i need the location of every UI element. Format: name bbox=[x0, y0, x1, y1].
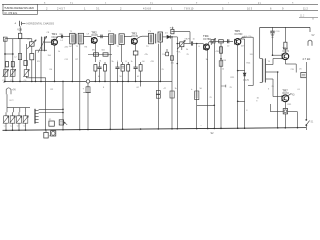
svg-text:S1: S1 bbox=[311, 122, 315, 124]
svg-text:L2: L2 bbox=[10, 126, 13, 128]
svg-text:+: + bbox=[191, 88, 193, 91]
svg-text:+9V: +9V bbox=[12, 90, 17, 92]
svg-text:2 4 5 7: 2 4 5 7 bbox=[57, 6, 65, 10]
svg-text:OC72: OC72 bbox=[282, 50, 289, 53]
svg-text:2: 2 bbox=[120, 6, 122, 10]
svg-text:C6: C6 bbox=[23, 126, 27, 128]
svg-text:3: 3 bbox=[268, 89, 270, 91]
svg-text:47k: 47k bbox=[145, 54, 148, 56]
svg-text:a: a bbox=[201, 125, 203, 127]
svg-text:470: 470 bbox=[216, 51, 220, 53]
svg-text:R4: R4 bbox=[50, 69, 53, 71]
svg-text:02: 02 bbox=[137, 76, 140, 78]
svg-text:R24: R24 bbox=[247, 63, 252, 65]
svg-text:LS: LS bbox=[299, 69, 302, 71]
svg-text:OA70: OA70 bbox=[243, 79, 250, 82]
svg-text:OC45: OC45 bbox=[91, 34, 98, 37]
svg-text:10 3: 10 3 bbox=[247, 6, 253, 10]
svg-text:.04: .04 bbox=[142, 61, 146, 63]
svg-text:5: 5 bbox=[222, 6, 224, 10]
svg-text:25: 25 bbox=[230, 87, 233, 89]
svg-text:5k: 5k bbox=[186, 49, 189, 51]
svg-text:BY2: BY2 bbox=[10, 100, 15, 102]
svg-text:OC45: OC45 bbox=[131, 35, 138, 38]
svg-text:9V: 9V bbox=[312, 34, 315, 37]
svg-text:T4: T4 bbox=[268, 61, 271, 63]
svg-text:8: 8 bbox=[256, 100, 258, 102]
svg-text:4.7 kΩ: 4.7 kΩ bbox=[302, 57, 310, 61]
svg-text:11 2: 11 2 bbox=[303, 6, 308, 10]
svg-text:HORIZONTAL CHASSIS: HORIZONTAL CHASSIS bbox=[27, 23, 55, 26]
svg-text:8: 8 bbox=[199, 46, 201, 48]
svg-text:4 5 6 8: 4 5 6 8 bbox=[143, 6, 151, 10]
svg-text:25: 25 bbox=[187, 54, 190, 56]
svg-text:T1: T1 bbox=[76, 46, 79, 48]
svg-text:T3: T3 bbox=[148, 31, 151, 33]
svg-text:10: 10 bbox=[227, 45, 230, 47]
svg-text:R7: R7 bbox=[76, 59, 79, 61]
svg-text:R2: R2 bbox=[51, 89, 55, 91]
svg-text:T3: T3 bbox=[146, 46, 149, 48]
svg-text:V2B: V2B bbox=[17, 28, 22, 32]
svg-text:R21: R21 bbox=[231, 77, 236, 79]
svg-text:L1: L1 bbox=[4, 126, 7, 128]
svg-text:L2: L2 bbox=[14, 57, 17, 59]
svg-text:L4: L4 bbox=[61, 40, 64, 42]
svg-text:6: 6 bbox=[270, 6, 272, 10]
svg-text:OC44: OC44 bbox=[52, 36, 59, 39]
svg-text:OA79: OA79 bbox=[185, 37, 191, 40]
svg-text:10k 25k: 10k 25k bbox=[244, 36, 253, 38]
svg-text:R6: R6 bbox=[85, 47, 89, 49]
svg-text:C5: C5 bbox=[17, 126, 21, 128]
svg-text:+: + bbox=[14, 21, 16, 25]
svg-text:R31: R31 bbox=[288, 104, 293, 106]
svg-text:25: 25 bbox=[272, 86, 275, 88]
svg-text:270: 270 bbox=[291, 69, 295, 71]
svg-text:1k: 1k bbox=[131, 61, 133, 63]
svg-text:OC78D: OC78D bbox=[203, 38, 211, 41]
svg-text:S2: S2 bbox=[211, 132, 215, 135]
svg-text:25: 25 bbox=[162, 69, 165, 71]
svg-text:R3: R3 bbox=[37, 61, 40, 63]
svg-text:T2: T2 bbox=[108, 31, 111, 33]
svg-text:1k: 1k bbox=[206, 59, 208, 61]
svg-text:T1: T1 bbox=[70, 31, 73, 33]
svg-text:01: 01 bbox=[298, 89, 301, 91]
svg-text:100: 100 bbox=[171, 63, 174, 65]
svg-text:8: 8 bbox=[103, 87, 105, 89]
svg-text:4Ω: 4Ω bbox=[292, 95, 295, 97]
svg-text:15k: 15k bbox=[162, 54, 165, 56]
svg-text:2: 2 bbox=[46, 6, 48, 10]
svg-text:04: 04 bbox=[98, 76, 101, 78]
svg-text:10: 10 bbox=[193, 39, 196, 41]
svg-text:8: 8 bbox=[246, 110, 248, 112]
svg-text:47: 47 bbox=[164, 88, 167, 90]
svg-text:5k: 5k bbox=[112, 61, 115, 63]
svg-text:D1: D1 bbox=[165, 33, 169, 35]
svg-text:.01: .01 bbox=[99, 61, 103, 63]
svg-text:1: 1 bbox=[84, 6, 86, 10]
svg-text:150: 150 bbox=[48, 55, 52, 57]
svg-text:OC78D: OC78D bbox=[234, 33, 242, 36]
svg-text:50: 50 bbox=[200, 88, 203, 90]
svg-text:VOL: VOL bbox=[177, 52, 182, 54]
svg-text:TUNING RANGE 515-1620: TUNING RANGE 515-1620 bbox=[4, 7, 34, 10]
svg-text:5k6: 5k6 bbox=[102, 49, 106, 51]
svg-text:1k: 1k bbox=[222, 69, 225, 71]
svg-text:C9: C9 bbox=[87, 34, 90, 36]
svg-text:1: 1 bbox=[171, 6, 173, 10]
svg-text:+: + bbox=[83, 88, 85, 91]
svg-text:OC72: OC72 bbox=[282, 92, 289, 95]
svg-text:1k: 1k bbox=[58, 51, 60, 53]
svg-text:C30: C30 bbox=[276, 31, 281, 33]
svg-text:C11: C11 bbox=[65, 59, 69, 61]
svg-text:9: 9 bbox=[282, 6, 284, 10]
svg-text:11.2: 11.2 bbox=[300, 16, 305, 18]
svg-text:T2: T2 bbox=[117, 46, 120, 48]
svg-text:8: 8 bbox=[126, 61, 128, 63]
svg-text:02: 02 bbox=[137, 87, 140, 89]
svg-text:50: 50 bbox=[120, 76, 123, 78]
svg-text:7 8 9 10: 7 8 9 10 bbox=[184, 6, 194, 10]
svg-text:I.F. 470 kc/s: I.F. 470 kc/s bbox=[4, 12, 18, 15]
svg-text:470: 470 bbox=[151, 61, 155, 63]
svg-text:C8: C8 bbox=[47, 32, 51, 34]
svg-text:3 1: 3 1 bbox=[96, 6, 100, 10]
svg-text:25: 25 bbox=[210, 97, 213, 99]
svg-text:16: 16 bbox=[257, 98, 260, 100]
svg-text:8: 8 bbox=[117, 61, 119, 63]
